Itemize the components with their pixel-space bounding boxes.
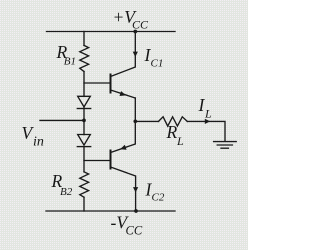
node: output junction dot	[133, 119, 137, 123]
wire: Q1 emitter diagonal	[111, 90, 136, 98]
node: -VCC junction dot	[134, 209, 138, 213]
resistor RB1	[80, 45, 89, 71]
wire: Q1 collector from VCC dot	[111, 32, 136, 77]
node: Vin junction dot	[82, 119, 86, 123]
wire: Q2 emitter from output node	[111, 121, 136, 152]
wire: D2 to RB2 (Q2 base junction)	[83, 147, 85, 172]
wire: output node to RL	[135, 120, 158, 122]
svg-text:CC: CC	[132, 18, 149, 32]
wire: RB1 to diode D1 (Q1 base junction)	[83, 72, 85, 97]
resistor RB2	[80, 172, 89, 197]
wire: Vin lead	[40, 119, 84, 121]
-VCC rail	[46, 210, 175, 212]
wire: Q2 collector	[111, 167, 136, 211]
svg-text:B2: B2	[60, 186, 73, 198]
current arrow IC1	[133, 52, 138, 57]
wire: Q1 emitter to output node	[134, 98, 136, 121]
resistor RL	[159, 117, 188, 126]
wire: RB2 to -VCC rail	[83, 197, 85, 211]
svg-text:C2: C2	[152, 192, 165, 204]
wire: Q1 base	[84, 82, 111, 84]
svg-text:R: R	[166, 122, 178, 142]
diode D2	[77, 135, 90, 147]
svg-text:CC: CC	[126, 224, 143, 238]
diode D1	[77, 96, 90, 108]
transistor Q2 base bar	[110, 151, 112, 169]
svg-text:B1: B1	[64, 56, 76, 68]
current arrow IC2	[133, 187, 138, 192]
wire: VCC rail to RB1	[83, 32, 85, 46]
wire: D1 to D2 through Vin node	[83, 107, 85, 135]
svg-text:L: L	[176, 134, 184, 148]
arrow: Q1 emitter (npn)	[120, 91, 127, 96]
wire: Q2 base	[84, 160, 111, 162]
arrow: Q2 emitter (pnp)	[120, 145, 127, 150]
ground	[214, 142, 237, 149]
wire: RL to ground corner	[187, 121, 225, 141]
current arrow IL	[205, 119, 210, 124]
+VCC rail	[47, 31, 176, 33]
node: VCC junction dot	[133, 30, 137, 34]
svg-text:in: in	[33, 135, 44, 150]
transistor Q1 base bar	[110, 75, 112, 93]
svg-text:L: L	[204, 107, 212, 121]
svg-text:C1: C1	[151, 58, 164, 70]
